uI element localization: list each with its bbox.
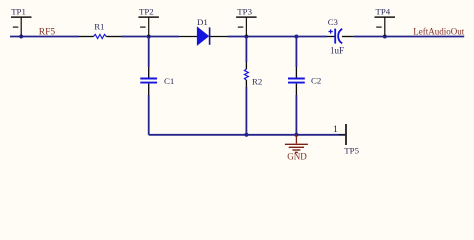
- svg-text:GND: GND: [287, 152, 307, 162]
- capacitor C2: [288, 67, 305, 95]
- ground GND power port: [285, 135, 308, 153]
- wire: C2 down to bottom rail: [295, 95, 297, 135]
- svg-text:TP1: TP1: [11, 7, 26, 17]
- svg-text:C2: C2: [311, 76, 321, 86]
- wire: R1 to TP2 node: [121, 36, 179, 38]
- resistor R2: [244, 62, 248, 87]
- svg-text:TP2: TP2: [139, 7, 154, 17]
- svg-text:D1: D1: [197, 17, 208, 27]
- capacitor C3 (polarized): [327, 29, 354, 44]
- svg-text:C1: C1: [164, 76, 174, 86]
- wire: C1 down to bottom rail: [148, 95, 150, 135]
- svg-text:TP5: TP5: [344, 145, 359, 155]
- svg-text:R1: R1: [94, 21, 104, 31]
- diode D1: [179, 27, 228, 44]
- wire: C3 to TP4 node to LeftAudioOut: [354, 36, 465, 38]
- svg-text:TP4: TP4: [376, 7, 391, 17]
- test point TP4: [375, 17, 396, 36]
- node: junction at TP2: [147, 35, 151, 39]
- test point TP3: [236, 17, 257, 36]
- wire: TP2 node down to C1: [148, 37, 150, 68]
- test point TP5: [339, 124, 347, 145]
- wire: R2 down to bottom rail: [245, 87, 247, 135]
- capacitor C1: [140, 67, 157, 95]
- svg-text:RF5: RF5: [39, 27, 56, 37]
- resistor R1: [79, 34, 121, 38]
- node: junction at TP3: [244, 35, 248, 39]
- wire: TP3 node down to R2: [245, 37, 247, 63]
- svg-text:C3: C3: [328, 17, 339, 27]
- wire: D1 cathode to TP3 node and on to C3: [228, 36, 328, 38]
- test point TP2: [138, 17, 159, 36]
- node: junction at C3/C2 tap: [294, 35, 298, 39]
- svg-text:R2: R2: [252, 76, 262, 86]
- svg-text:LeftAudioOut: LeftAudioOut: [413, 27, 464, 37]
- wire: C3 tap node down to C2: [295, 37, 297, 68]
- wire: bottom rail: [149, 134, 346, 136]
- sheet background: [0, 0, 474, 177]
- wire: top net, left open end to R1: [10, 36, 79, 38]
- svg-text:1: 1: [333, 124, 338, 134]
- node: junction at TP1: [19, 35, 23, 39]
- svg-text:1uF: 1uF: [330, 45, 344, 55]
- node: junction at TP4: [383, 35, 387, 39]
- test point TP1: [11, 17, 32, 36]
- svg-text:TP3: TP3: [237, 7, 252, 17]
- node: junction GND at bottom rail: [294, 133, 298, 137]
- node: junction R2 at bottom rail: [244, 133, 248, 137]
